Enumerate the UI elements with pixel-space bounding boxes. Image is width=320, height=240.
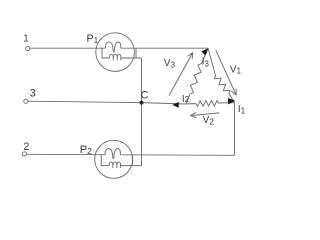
wire: line 1 from terminal 1 to P1 current coil [30, 47, 106, 49]
wire: line 2 from terminal 2 to P2 current coil [27, 153, 106, 155]
wire: line 2 from P2 current coil to bottom-right corner [120, 154, 234, 157]
svg-text:V2: V2 [203, 115, 215, 126]
terminal 2 [22, 152, 26, 156]
svg-text:I1: I1 [238, 104, 246, 116]
wattmeter P2 body [95, 140, 133, 178]
P1 current coil [106, 42, 121, 52]
wire: line 3 from terminal 3 through node C to delta bottom-left vertex [28, 101, 186, 104]
P2 current coil [105, 149, 120, 159]
wire: right vertical from delta bottom-right vertex down to line 2 [234, 103, 236, 156]
current arrow I3 [201, 48, 208, 55]
P2 voltage coil tap stub [131, 155, 133, 166]
resistor V3 (left side of delta) [186, 48, 208, 104]
current arrow I1 [228, 98, 236, 104]
svg-text:I3: I3 [202, 57, 210, 69]
voltage arrow V1 [216, 50, 236, 95]
P1 voltage coil tap stub [135, 48, 137, 58]
wire: line 1 from P1 current coil to delta top vertex [121, 47, 208, 49]
node C junction dot [140, 101, 144, 105]
svg-text:V3: V3 [164, 58, 176, 69]
svg-text:C: C [141, 90, 149, 102]
svg-text:3: 3 [30, 87, 36, 99]
wire: vertical from P1 voltage coil down through node C to P2 voltage coil [141, 58, 143, 166]
terminal 1 [26, 47, 30, 51]
terminal 3 [24, 99, 28, 103]
svg-text:1: 1 [23, 33, 28, 44]
voltage arrow V3 [169, 53, 193, 96]
svg-text:P1: P1 [87, 33, 99, 45]
P1 voltage coil [102, 48, 142, 60]
svg-text:P2: P2 [80, 144, 92, 156]
P2 voltage coil [101, 155, 141, 168]
wattmeter P1 body [96, 33, 135, 72]
svg-text:V1: V1 [230, 65, 242, 76]
voltage arrow V2 [190, 112, 219, 117]
svg-text:I2: I2 [182, 94, 190, 105]
svg-text:2: 2 [23, 141, 29, 153]
resistor V1 (right side of delta) [208, 48, 235, 102]
current arrow I2 [172, 102, 178, 108]
resistor V2 (bottom side of delta) [186, 100, 235, 106]
